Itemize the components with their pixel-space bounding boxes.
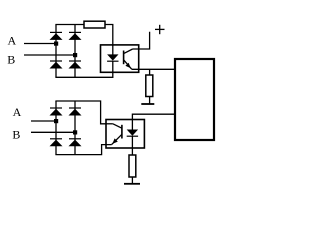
diode D1 (bridge1 upper-left) [50, 32, 63, 40]
wire emitter output to control box [132, 68, 176, 70]
junction dot on B input [73, 53, 77, 57]
transistor Q2 phototransistor inside U2 (mirrored) [112, 124, 122, 145]
wire from bridge1 top rail into R1 already on rail; wire R1 to corner [105, 25, 113, 47]
op-amp U1 optocoupler box (top) [101, 45, 139, 72]
svg-text:B: B [12, 127, 20, 141]
wire bridge1 bottom rail [55, 72, 112, 77]
diode D8 (bridge2 lower-right) [69, 139, 82, 147]
ground (bottom circuit) [124, 183, 140, 185]
wire bridge2 right column [74, 101, 76, 155]
junction dot on bottom A input [54, 119, 58, 123]
junction dot on bottom B input [73, 130, 77, 134]
wire bridge2 top rail [55, 101, 106, 124]
wire B bottom input [31, 131, 75, 133]
wire A top input [24, 43, 56, 45]
svg-text:B: B [7, 53, 15, 67]
resistor R3 (bottom vertical) [129, 155, 136, 177]
diode D7 (bridge2 lower-left) [50, 139, 63, 147]
op-amp U2 optocoupler box (bottom) [106, 120, 144, 149]
wire A bottom input [31, 120, 56, 122]
transistor Q1 phototransistor inside U1 [124, 49, 133, 69]
resistor R1 (top horizontal, series with LED) [84, 21, 105, 28]
wire collector entry segment [106, 123, 113, 125]
LED inside U2 [127, 120, 138, 156]
diode D2 (bridge1 upper-right) [69, 32, 82, 40]
junction dot on A input [54, 42, 58, 46]
diode D6 (bridge2 upper-right) [69, 108, 82, 116]
ground (top circuit) [141, 103, 154, 105]
wire bridge1 left column [55, 25, 57, 78]
wire bridge2 bottom rail [55, 145, 111, 155]
diode D5 (bridge2 upper-left) [50, 108, 63, 116]
wire LED anode to control box [132, 114, 176, 119]
wire bridge1 right column [74, 25, 76, 78]
LED inside U1 [107, 45, 118, 72]
control box (right) [175, 59, 214, 140]
power + symbol [155, 25, 165, 34]
wire bridge1 top rail [55, 24, 84, 26]
wire bridge2 left column [55, 101, 57, 155]
wire B top input [24, 54, 75, 56]
diode D3 (bridge1 lower-left) [50, 61, 63, 69]
diode D4 (bridge1 lower-right) [69, 61, 82, 69]
svg-text:A: A [8, 34, 17, 48]
wire collector to + supply [133, 32, 150, 49]
resistor R2 (top vertical load) [149, 69, 151, 75]
svg-text:A: A [13, 105, 22, 119]
